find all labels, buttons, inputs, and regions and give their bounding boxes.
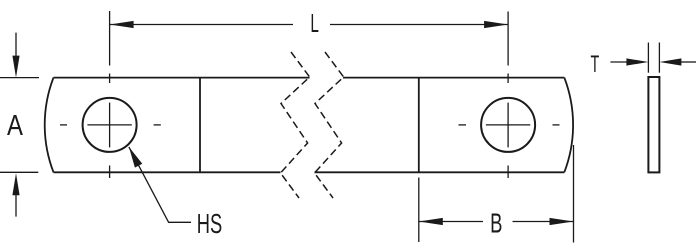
svg-text:L: L xyxy=(310,9,319,38)
svg-text:HS: HS xyxy=(197,208,222,239)
svg-text:T: T xyxy=(591,51,600,78)
svg-text:B: B xyxy=(490,208,502,239)
svg-text:A: A xyxy=(7,109,23,141)
